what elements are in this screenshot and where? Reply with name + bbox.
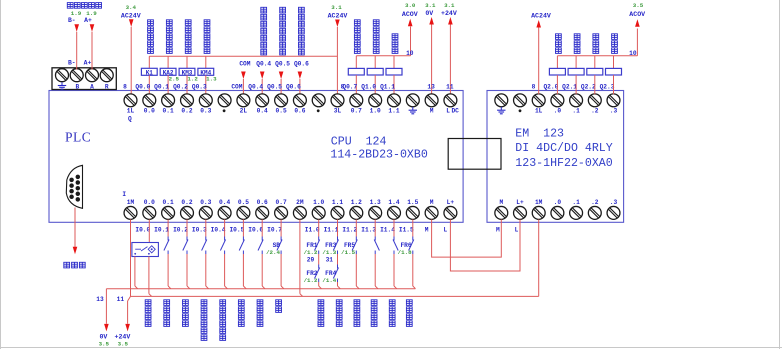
switch I0.2: [186, 237, 188, 241]
wire I0.7 upper: [280, 219, 282, 236]
terminal top 0.4: [256, 94, 269, 107]
terminal bottom 0.6: [256, 206, 269, 219]
svg-text:L: L: [444, 226, 448, 233]
svg-text:0.0: 0.0: [144, 107, 155, 114]
svg-text:2L: 2L: [240, 107, 248, 114]
arrow 0V top: [429, 17, 434, 25]
arrow output Q0.6: [298, 72, 303, 80]
switch I0.1: [167, 237, 169, 241]
svg-text:I0.3: I0.3: [192, 226, 207, 233]
svg-text:0.2: 0.2: [181, 199, 192, 206]
wire valve riser 3: [393, 56, 395, 69]
wire I0.5 upper: [242, 219, 244, 236]
svg-text:ACOV: ACOV: [402, 11, 418, 18]
wire valve riser 1: [355, 56, 357, 69]
switch I0.4: [224, 237, 226, 241]
svg-text:EM 123: EM 123: [515, 128, 564, 141]
svg-text:.3: .3: [610, 199, 618, 206]
terminal top GND: [406, 94, 419, 107]
terminal top M: [425, 94, 438, 107]
svg-text:I1.5: I1.5: [399, 226, 414, 233]
switch input I1.3: [374, 237, 376, 241]
svg-text:3.1: 3.1: [444, 2, 455, 9]
wire I0.3 lower: [205, 254, 207, 286]
svg-text:1.5: 1.5: [407, 199, 418, 206]
label CJK input function r: [371, 300, 377, 306]
terminal bottom 0.7: [275, 206, 288, 219]
terminal bottom 2M: [293, 206, 306, 219]
EM terminal top dot: [514, 94, 527, 107]
svg-text:Q0.6: Q0.6: [286, 84, 301, 91]
svg-text:3.0: 3.0: [405, 2, 416, 9]
wire I0.1 lower: [167, 254, 169, 286]
relay coil KM3: [179, 68, 195, 75]
label CJK 输送变频器启动: [280, 7, 286, 13]
svg-text:FR1: FR1: [306, 242, 317, 249]
svg-text:Q1.1: Q1.1: [380, 84, 395, 91]
wire AC24V to 3L: [336, 27, 338, 94]
terminal bottom 1.0: [312, 206, 325, 219]
terminal bottom 0.4: [218, 206, 231, 219]
svg-text:/1.2: /1.2: [304, 277, 318, 284]
label CJK 大刀切料阀: [373, 20, 379, 26]
svg-text:.0: .0: [554, 107, 562, 114]
EM terminal top GND: [495, 94, 508, 107]
switch FR3: [337, 237, 339, 241]
PLC CPU 124 main box: [49, 91, 463, 223]
svg-text:B: B: [76, 83, 80, 90]
junction dot top 10: [317, 109, 320, 112]
wire EM valve EV3 to terminal: [594, 75, 596, 94]
svg-text:Q0.4: Q0.4: [256, 60, 271, 67]
label CJK 齐尾阀: [556, 34, 562, 40]
wire I1.1 mid: [337, 254, 339, 265]
terminal top 1.1: [388, 94, 401, 107]
arrow ACOV right: [635, 19, 640, 27]
svg-text:AC24V: AC24V: [328, 13, 348, 20]
svg-text:10: 10: [406, 50, 414, 57]
wire I1.3 upper: [374, 219, 376, 236]
svg-text:PLC: PLC: [65, 130, 91, 145]
terminal top L: [444, 94, 457, 107]
label CJK 精修接触器: [204, 20, 210, 26]
wire EM valve EV2 to terminal: [575, 75, 577, 94]
svg-text:.3: .3: [610, 107, 618, 114]
terminal bottom 0.2: [181, 206, 194, 219]
wire sensor 24V pin: [148, 257, 150, 294]
svg-text:1.1: 1.1: [388, 107, 399, 114]
wire riser K1: [148, 56, 150, 68]
terminal bottom 1.1: [331, 206, 344, 219]
switch I0.7: [280, 237, 282, 241]
switch input I1.5: [412, 237, 414, 241]
svg-text:Q2.0: Q2.0: [543, 84, 558, 91]
switch I0.5: [242, 237, 244, 241]
wire I0.2 lower: [186, 254, 188, 286]
svg-text:3.5: 3.5: [99, 340, 110, 347]
switch input I1.4: [393, 237, 395, 241]
label header CJK 变频器通讯: [67, 3, 73, 9]
svg-text:Q0.6: Q0.6: [294, 60, 309, 67]
svg-text:0.1: 0.1: [163, 107, 174, 114]
svg-text:I1.2: I1.2: [342, 226, 357, 233]
RS485 terminal block: [52, 68, 116, 90]
svg-text:ACOV: ACOV: [629, 11, 645, 18]
terminal bottom M: [425, 206, 438, 219]
svg-text:I1.3: I1.3: [361, 226, 376, 233]
svg-text:0.7: 0.7: [351, 107, 362, 114]
svg-text:A+: A+: [84, 17, 92, 24]
svg-text:0.3: 0.3: [200, 107, 211, 114]
svg-text:/1.4: /1.4: [322, 277, 336, 284]
label CJK 压紧阀: [593, 34, 599, 40]
solenoid valve V3: [386, 68, 402, 75]
solenoid valve EV2: [568, 68, 584, 75]
svg-text:3.5: 3.5: [118, 340, 129, 347]
terminal bottom 1.2: [350, 206, 363, 219]
svg-text:13: 13: [427, 84, 435, 91]
label CJK 吹气阀: [574, 34, 580, 40]
svg-text:I0.0: I0.0: [135, 226, 150, 233]
terminal bottom 1.4: [388, 206, 401, 219]
svg-text:M: M: [496, 226, 500, 233]
wire EM valve EV1 to terminal: [556, 75, 558, 94]
wire 24V drop: [127, 301, 129, 324]
svg-text:/2.4: /2.4: [266, 249, 280, 256]
wire I0.4 upper: [224, 219, 226, 236]
bus 0V line: [106, 288, 415, 290]
svg-text:0.4: 0.4: [219, 199, 230, 206]
wire valve V2 to terminal: [374, 75, 376, 94]
label CJK input function: [145, 300, 151, 306]
label CJK input function: [201, 300, 207, 306]
svg-text:31: 31: [326, 257, 334, 264]
svg-text:Q0.2: Q0.2: [173, 84, 188, 91]
valve return bus: [356, 55, 410, 57]
wire I1.0 upper: [318, 219, 320, 236]
svg-text:M: M: [499, 199, 503, 206]
svg-text:.1: .1: [572, 199, 580, 206]
svg-text:Q1.0: Q1.0: [361, 84, 376, 91]
svg-text:I0.2: I0.2: [173, 226, 188, 233]
switch FR1: [318, 237, 320, 241]
arrow AC24V right: [536, 20, 541, 28]
svg-text:K1: K1: [146, 69, 154, 76]
svg-text:0.3: 0.3: [200, 199, 211, 206]
svg-text:Q0.5: Q0.5: [275, 60, 290, 67]
svg-text:1M: 1M: [127, 199, 135, 206]
label CJK input function: [238, 300, 244, 306]
terminal bottom L+: [444, 206, 457, 219]
arrow 0V bottom: [104, 324, 109, 332]
svg-text:1L: 1L: [535, 107, 543, 114]
svg-text:FR3: FR3: [325, 242, 336, 249]
label CJK 大刀压紧阀: [354, 20, 360, 26]
svg-text:Q2.1: Q2.1: [562, 84, 577, 91]
terminal block screw R: [100, 69, 113, 82]
terminal bottom 1.3: [369, 206, 382, 219]
svg-text:1.3: 1.3: [370, 199, 381, 206]
svg-text:AC24V: AC24V: [531, 13, 551, 20]
svg-text:0.1: 0.1: [163, 199, 174, 206]
EM terminal top .3: [607, 94, 620, 107]
terminal top 2L: [237, 94, 250, 107]
EM terminal bottom .0: [551, 206, 564, 219]
svg-text:A: A: [90, 83, 94, 90]
svg-text:1L: 1L: [127, 107, 135, 114]
svg-text:1.4: 1.4: [388, 199, 399, 206]
junction dot top 5: [223, 109, 226, 112]
svg-text:FR6: FR6: [400, 242, 411, 249]
svg-text:.2: .2: [591, 107, 599, 114]
svg-text:11: 11: [446, 84, 454, 91]
terminal top 1L: [124, 94, 137, 107]
svg-text:1.2: 1.2: [187, 75, 198, 82]
svg-text:1.2: 1.2: [351, 199, 362, 206]
switch FR2: [318, 265, 320, 269]
svg-text:B-: B-: [68, 17, 76, 24]
svg-text:123-1HF22-0XA0: 123-1HF22-0XA0: [515, 157, 612, 170]
svg-text:3.1: 3.1: [425, 2, 436, 9]
wire output Q0.5: [280, 79, 282, 94]
relay coil KA2: [160, 68, 176, 75]
switch input I1.2: [355, 237, 357, 241]
wire I1.0 mid: [318, 254, 320, 265]
EM terminal top .0: [551, 94, 564, 107]
svg-text:10: 10: [629, 50, 637, 57]
svg-text:COM: COM: [231, 84, 242, 91]
label CJK input function: [276, 300, 282, 306]
arrow +24V bottom: [125, 324, 130, 332]
svg-text:I0.1: I0.1: [154, 226, 169, 233]
terminal top 0.2: [181, 94, 194, 107]
wire I0.6 upper: [261, 219, 263, 236]
wire CPU M to EM M: [432, 219, 502, 257]
svg-text:I1.4: I1.4: [380, 226, 395, 233]
EM terminal bottom L+: [514, 206, 527, 219]
svg-text:Q0.1: Q0.1: [154, 84, 169, 91]
label CJK input function r: [354, 300, 360, 306]
svg-text:I: I: [122, 191, 126, 198]
svg-text:/1.8: /1.8: [398, 249, 412, 256]
svg-text:8: 8: [532, 84, 536, 91]
terminal top 0.6: [293, 94, 306, 107]
svg-text:1.0: 1.0: [313, 199, 324, 206]
EM terminal bottom .2: [588, 206, 601, 219]
solenoid valve V2: [367, 68, 383, 75]
terminal bottom 0.5: [237, 206, 250, 219]
svg-text:DC: DC: [451, 107, 459, 114]
wire sensor 0V pin: [134, 257, 136, 287]
svg-text:SB: SB: [273, 242, 281, 249]
wire I0.1 upper: [167, 219, 169, 236]
wire valve V3 to terminal: [393, 75, 395, 94]
svg-text:L+: L+: [447, 199, 455, 206]
wire KA2 to terminal: [167, 75, 169, 94]
wire EM valve riser 2: [575, 56, 577, 69]
terminal top 0.3: [199, 94, 212, 107]
wire valve V1 to terminal: [355, 75, 357, 94]
wire riser KM3: [186, 56, 188, 68]
solenoid valve EV1: [549, 68, 565, 75]
svg-text:8: 8: [123, 84, 127, 91]
wire I1.1 lower: [337, 282, 339, 286]
svg-text:L: L: [446, 107, 450, 114]
arrow +24V top: [448, 17, 453, 25]
terminal bottom 0.3: [199, 206, 212, 219]
svg-text:.2: .2: [591, 199, 599, 206]
svg-text:3.1: 3.1: [331, 4, 342, 11]
svg-text:2M: 2M: [296, 199, 304, 206]
EM terminal bottom M: [495, 206, 508, 219]
wire output Q0.4: [261, 79, 263, 94]
terminal top 0.1: [162, 94, 175, 107]
label CJK 齐头阀: [392, 34, 398, 40]
wire 1M drop: [130, 219, 132, 296]
wire I0.0 to sensor: [148, 219, 150, 242]
terminal bottom 1M: [124, 206, 137, 219]
wire valve riser 2: [374, 56, 376, 69]
svg-text:I0.6: I0.6: [248, 226, 263, 233]
wire AC24V to 1L: [130, 27, 132, 94]
label touch-screen (CJK): [64, 262, 70, 268]
wire I1.3 lower: [374, 254, 376, 286]
svg-text:3.5: 3.5: [633, 2, 644, 9]
wire ACOV riser: [410, 27, 412, 56]
EM junction dot: [519, 109, 522, 112]
label CJK input function: [183, 300, 189, 306]
arrow B- feed: [74, 24, 79, 32]
arrow AC24V mid: [335, 20, 340, 28]
wire I0.7 lower: [280, 254, 282, 286]
label CJK 齐头接触器: [185, 20, 191, 26]
svg-text:0.4: 0.4: [257, 107, 268, 114]
terminal top 0.7: [350, 94, 363, 107]
svg-text:I0.7: I0.7: [267, 226, 282, 233]
svg-text:0.6: 0.6: [294, 107, 305, 114]
solenoid valve EV3: [587, 68, 603, 75]
svg-text:0.0: 0.0: [144, 199, 155, 206]
label CJK input function: [220, 300, 226, 306]
svg-text:I0.4: I0.4: [211, 226, 226, 233]
label CJK 变频器复位: [148, 20, 154, 26]
terminal bottom 0.0: [143, 206, 156, 219]
wire I1.4 lower: [393, 254, 395, 286]
svg-text:Q0.5: Q0.5: [267, 84, 282, 91]
wire K1 to terminal: [148, 75, 150, 94]
svg-text:11: 11: [117, 296, 125, 303]
switch I0.6: [261, 237, 263, 241]
arrow to touch screen: [73, 247, 78, 255]
wire I1.5 lower: [412, 254, 414, 286]
wire KM3 to terminal: [186, 75, 188, 94]
arrow output Q0.4: [260, 72, 265, 80]
corner 0V bus: [105, 288, 107, 290]
wire I0.2 upper: [186, 219, 188, 236]
wire I1.4 upper: [393, 219, 395, 236]
svg-text:Q0.4: Q0.4: [248, 84, 263, 91]
svg-text:0.5: 0.5: [276, 107, 287, 114]
svg-text:Q2.3: Q2.3: [600, 84, 615, 91]
svg-text:1.3: 1.3: [206, 75, 217, 82]
svg-text:I1.1: I1.1: [324, 226, 339, 233]
svg-text:I1.0: I1.0: [305, 226, 320, 233]
svg-text:0.7: 0.7: [276, 199, 287, 206]
svg-text:FR4: FR4: [325, 270, 336, 277]
wire AC24V to EM 1L: [538, 28, 540, 95]
svg-text:B-: B-: [68, 60, 76, 67]
label CJK 开槽阀: [612, 34, 618, 40]
wire EM valve riser 1: [556, 56, 558, 69]
svg-text:.1: .1: [572, 107, 580, 114]
wire I0.4 lower: [224, 254, 226, 286]
svg-text:1.0: 1.0: [370, 107, 381, 114]
wire KM4 to terminal: [205, 75, 207, 94]
relay coil K1: [141, 68, 157, 75]
svg-text:114-2BD23-0XB0: 114-2BD23-0XB0: [330, 149, 427, 162]
svg-text:0.6: 0.6: [257, 199, 268, 206]
wire output COM: [242, 79, 244, 94]
svg-text:1.1: 1.1: [332, 199, 343, 206]
svg-text:Q0.0: Q0.0: [135, 84, 150, 91]
terminal top 1.0: [369, 94, 382, 107]
terminal bottom 1.5: [406, 206, 419, 219]
terminal block screw A: [86, 69, 99, 82]
arrow ACOV mid: [408, 19, 413, 27]
svg-text:CPU 124: CPU 124: [331, 135, 387, 148]
wire I0.5 lower: [242, 254, 244, 286]
wire I0.3 upper: [205, 219, 207, 236]
terminal bottom 0.1: [162, 206, 175, 219]
DB9 communication port: [66, 165, 82, 208]
wire EM valve EV4 to terminal: [613, 75, 615, 94]
svg-text:FR5: FR5: [344, 242, 355, 249]
terminal top dot10: [312, 94, 325, 107]
svg-text:DI 4DC/DO 4RLY: DI 4DC/DO 4RLY: [515, 142, 612, 155]
svg-text:/1.5: /1.5: [341, 249, 355, 256]
svg-text:29: 29: [307, 257, 315, 264]
terminal block ground symbol: [61, 82, 63, 85]
svg-text:L+: L+: [516, 199, 524, 206]
svg-text:Q2.2: Q2.2: [581, 84, 596, 91]
svg-text:R: R: [105, 83, 109, 90]
wire EM ACOV riser: [636, 29, 638, 56]
svg-text:Q0.7: Q0.7: [342, 84, 357, 91]
wire A+: [91, 32, 93, 70]
EM terminal top 1L: [532, 94, 545, 107]
wire EM valve riser 3: [594, 56, 596, 69]
EM terminal bottom .3: [607, 206, 620, 219]
wire I1.0 lower: [318, 282, 320, 286]
EM valve return bus: [557, 55, 637, 57]
switch I0.3: [205, 237, 207, 241]
border frame: [0, 0, 2, 349]
svg-text:Q0.3: Q0.3: [192, 84, 207, 91]
svg-text:0.5: 0.5: [238, 199, 249, 206]
svg-text:8: 8: [341, 84, 345, 91]
terminal top 0.0: [143, 94, 156, 107]
wire L to +24V: [449, 25, 451, 95]
svg-text:1M: 1M: [535, 199, 543, 206]
svg-text:/1.2: /1.2: [304, 249, 318, 256]
terminal top dot5: [218, 94, 231, 107]
wire CPU L+ to EM L+: [450, 219, 520, 271]
terminal top 3L: [331, 94, 344, 107]
solenoid valve V1: [348, 68, 364, 75]
svg-text:.0: .0: [554, 199, 562, 206]
wire output Q0.6: [299, 79, 301, 94]
label CJK input function r: [406, 300, 412, 306]
